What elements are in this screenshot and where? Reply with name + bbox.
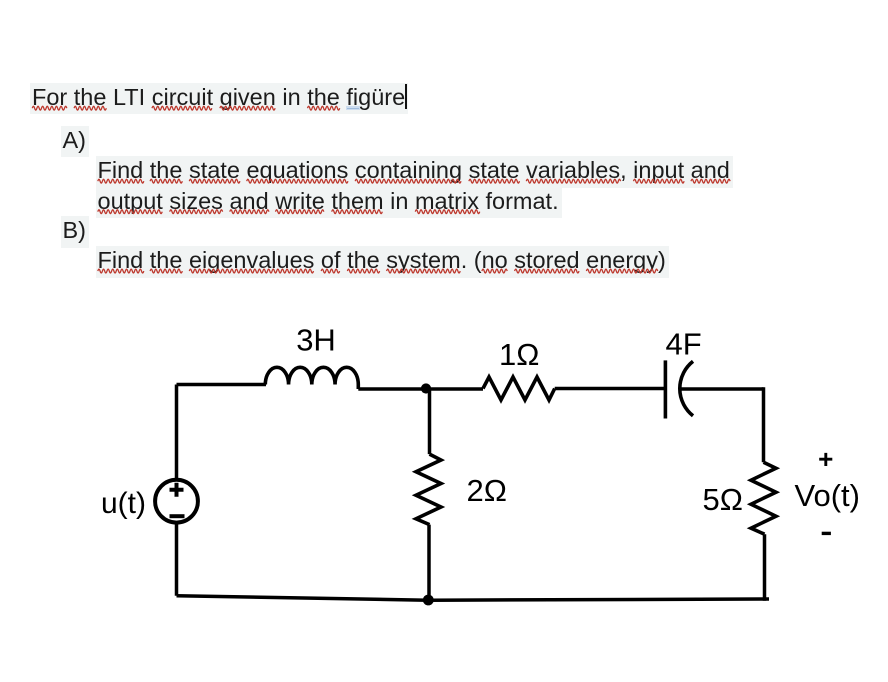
squiggle under "the"	[308, 106, 340, 110]
voltage source plus sign	[170, 483, 184, 497]
wire: resistor 2ohm to bottom node	[427, 525, 431, 600]
wire: top-left horizontal segment	[177, 383, 267, 387]
wire: left vertical bottom (source to bottom corner)	[175, 523, 179, 596]
problem statement line 1	[30, 83, 408, 115]
squiggle under "eigenvalues"	[189, 269, 313, 273]
squiggle under "state"	[469, 179, 520, 183]
voltage source u(t) circle	[155, 480, 198, 523]
squiggle under "sizes"	[170, 210, 223, 214]
squiggle under "Find"	[98, 179, 144, 183]
squiggle under "write"	[276, 210, 324, 214]
wire: resistor 1ohm to capacitor left plate	[555, 387, 665, 391]
item A text line 2	[96, 187, 562, 219]
squiggle under "of"	[321, 269, 339, 273]
squiggle under "energy"	[586, 269, 657, 273]
node B dot (bottom junction)	[423, 595, 434, 606]
squiggle under "the"	[150, 179, 182, 183]
squiggle under "input"	[634, 179, 685, 183]
wire: top-right corner down to resistor 5ohm	[762, 387, 766, 462]
squiggle under "variables"	[526, 179, 620, 183]
squiggle under "containing"	[355, 179, 461, 183]
squiggle under "the"	[150, 269, 182, 273]
svg-text:1Ω: 1Ω	[499, 337, 539, 372]
squiggle under "and"	[691, 179, 730, 183]
wire: node A to resistor 1ohm	[426, 387, 484, 391]
label minus (output polarity)	[822, 532, 831, 535]
squiggle under "stored"	[515, 269, 579, 273]
svg-text:u(t): u(t)	[101, 487, 146, 520]
node A dot (top junction)	[421, 383, 431, 393]
resistor R3 5ohm (vertical zigzag)	[751, 462, 776, 534]
resistor R2 2ohm (vertical zigzag)	[416, 454, 441, 524]
squiggle under "no"	[482, 269, 507, 273]
wire: inductor to node A	[358, 387, 425, 391]
squiggle under "circuit"	[152, 106, 212, 110]
item B)	[61, 216, 90, 248]
squiggle under "state"	[189, 179, 240, 183]
squiggle under "output"	[98, 210, 162, 214]
squiggle under "matrix"	[415, 210, 479, 214]
svg-text:3H: 3H	[296, 323, 336, 358]
squiggle under "the"	[347, 269, 379, 273]
wire: resistor 5ohm to bottom-right corner	[763, 534, 767, 601]
svg-text:5Ω: 5Ω	[703, 482, 743, 517]
wire: left vertical top (corner to source)	[175, 385, 179, 481]
squiggle under "Find"	[98, 269, 144, 273]
capacitor C 4F: left straight plate	[664, 360, 668, 418]
item A)	[61, 126, 90, 158]
item B text line 1	[96, 246, 669, 278]
svg-text:2Ω: 2Ω	[467, 473, 507, 508]
svg-text:Vo(t): Vo(t)	[795, 478, 860, 513]
inductor L 3H (4 humps)	[265, 367, 358, 389]
resistor R1 1ohm (horizontal zigzag)	[483, 377, 555, 400]
squiggle under "and"	[230, 210, 269, 214]
label plus (output polarity)	[819, 453, 832, 466]
item A text line 1	[96, 156, 733, 188]
squiggle under "the"	[74, 106, 106, 110]
wire: capacitor to top-right corner	[680, 387, 764, 391]
grammar mark under 'fi' of figüre	[346, 106, 360, 111]
wire: bottom horizontal (slightly sloped)	[177, 596, 770, 601]
squiggle under "equations"	[247, 179, 348, 183]
squiggle under "given"	[220, 106, 275, 110]
wire: node A down to resistor 2ohm	[428, 389, 432, 455]
voltage source minus sign	[170, 514, 185, 518]
svg-text:4F: 4F	[666, 326, 702, 361]
squiggle under "system"	[387, 269, 461, 273]
text cursor	[405, 84, 407, 109]
squiggle under "For"	[32, 106, 66, 110]
squiggle under "them"	[332, 210, 383, 214]
capacitor C 4F: right curved plate	[680, 361, 693, 416]
